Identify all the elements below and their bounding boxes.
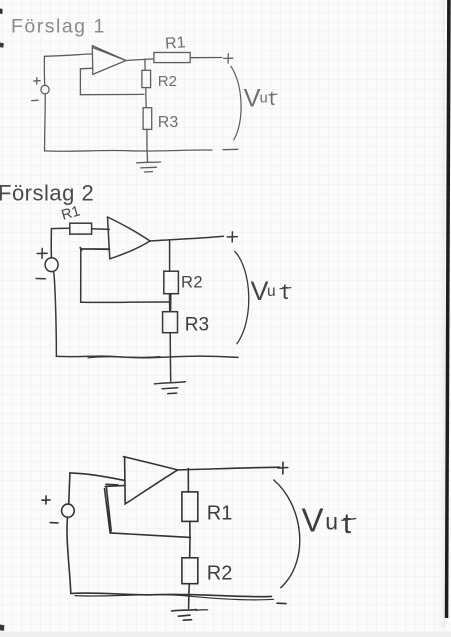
plus terminal [278,462,288,474]
wire feedback left vertical [105,486,112,533]
Vut brace [231,66,241,139]
svg-text:u: u [325,509,338,535]
scan blob bottom-left [0,625,4,631]
bottom wire [71,593,272,597]
resistor R2 [164,271,179,294]
wire feedback from inverting input [80,68,143,95]
ground [137,151,161,172]
resistor R1 [70,223,92,234]
wire R1 to opamp [92,228,110,231]
svg-text:u: u [267,283,276,300]
wire V2 top to R1 [51,228,70,258]
op-amp U1 [92,46,126,75]
bottom wire [56,356,238,358]
bottom wire [45,150,212,151]
wire opamp output [126,59,154,61]
wire inverting input [105,484,125,486]
minus terminal dash [277,602,286,604]
ground [172,596,197,620]
voltage source V1 [41,85,49,94]
wire V3 bottom [67,517,71,594]
svg-text:R1: R1 [165,34,187,52]
plus terminal [224,54,233,63]
svg-text:R2: R2 [158,73,177,90]
wire R2 to bottom [188,584,191,596]
svg-text:Förslag 1: Förslag 1 [11,15,106,37]
node junction R2 top [144,59,146,70]
resistor R3 [143,108,152,130]
voltage source V3 [62,504,75,517]
V3 plus [42,496,50,504]
wire R2 to node [145,88,147,108]
svg-text:V: V [251,276,269,306]
plus terminal [227,232,237,242]
wire output down to R1 [187,469,189,492]
svg-text:V: V [302,502,324,539]
V1 minus [32,99,38,101]
ground [154,357,185,394]
scan edge right [445,0,451,618]
wire opamp output [178,467,280,470]
wire R1 to + terminal [190,57,222,59]
op-amp U2 [108,217,151,259]
wire opamp output [150,236,223,241]
bottom scan shade [0,632,451,637]
wire R3 to bottom [146,129,148,150]
svg-text:R2: R2 [207,562,233,584]
svg-text:R2: R2 [181,274,203,292]
svg-text:t: t [343,508,351,540]
Vut brace [274,480,300,588]
scan blob top-left [0,9,3,15]
wire V3 top to opamp [69,473,124,504]
svg-text:R1: R1 [207,502,233,524]
voltage source V2 [45,258,58,272]
svg-text:t: t [269,88,275,110]
V2 plus [37,248,47,258]
svg-text:u: u [260,90,268,106]
svg-text:t: t [282,279,288,304]
wire feedback bottom to node [110,533,190,538]
op-amp U3 [124,457,178,504]
minus terminal dash [223,148,238,150]
bottom wire overdraw [88,357,160,358]
Vut brace [235,251,249,343]
wire feedback bottom to node [81,301,170,304]
wire R3 to bottom [169,333,171,357]
V3 minus [50,522,58,524]
wire V2 bottom [54,272,57,357]
resistor R3 [163,312,178,333]
resistor R1 [182,492,198,522]
bottom wire overdraw [75,595,274,600]
V2 minus [36,278,45,280]
svg-text:R3: R3 [185,315,209,336]
wire feedback left vertical [80,249,82,302]
wire V1 top to opamp [44,54,92,86]
resistor R1 [154,53,190,63]
resistor R2 [142,70,151,87]
svg-text:V: V [244,84,261,112]
wire R2 to R3 [170,294,171,312]
V1 plus [34,78,40,84]
scan blob left upper [0,43,4,48]
scan edge right soft shade [434,0,445,628]
wire inverting input [80,248,109,251]
wire output down to R2 [169,240,171,271]
svg-text:Förslag 2: Förslag 2 [0,181,94,206]
wire V1 bottom [44,94,47,151]
resistor R2 [182,558,198,584]
ground stray stroke [196,609,208,612]
wire R1 to node [189,521,191,557]
svg-text:R3: R3 [158,114,179,131]
